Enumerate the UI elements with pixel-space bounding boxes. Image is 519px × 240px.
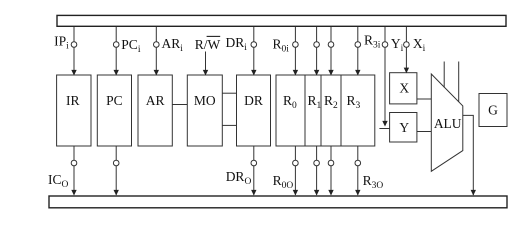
svg-text:IR: IR [66,93,80,108]
svg-text:R3O: R3O [363,173,384,191]
svg-text:R0i: R0i [273,37,290,55]
svg-text:Xi: Xi [413,36,426,54]
svg-text:R3i: R3i [364,33,381,51]
svg-text:AR: AR [146,93,165,108]
svg-text:R0O: R0O [273,173,294,191]
svg-text:ALU: ALU [434,116,462,131]
svg-text:MO: MO [194,93,216,108]
svg-text:DRO: DRO [226,169,252,187]
svg-text:ARi: ARi [162,36,184,54]
svg-text:DRi: DRi [226,35,248,53]
svg-text:PCi: PCi [121,37,141,55]
svg-text:R/W: R/W [195,37,221,52]
svg-text:ICO: ICO [48,172,69,190]
svg-text:PC: PC [106,93,123,108]
svg-text:G: G [488,103,498,118]
svg-text:Y: Y [399,120,409,135]
svg-text:X: X [399,81,409,96]
svg-text:IPi: IPi [54,34,69,52]
svg-text:Yi: Yi [391,36,404,54]
svg-text:DR: DR [244,93,263,108]
